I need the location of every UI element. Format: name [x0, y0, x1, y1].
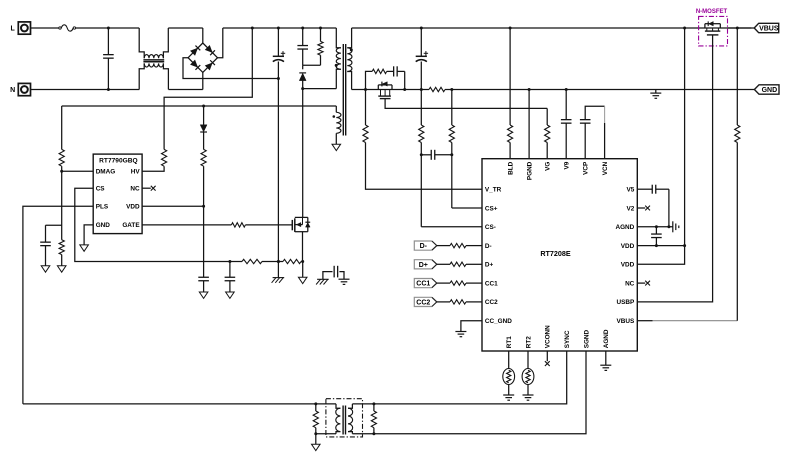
svg-text:N: N: [10, 87, 15, 94]
svg-text:GND: GND: [96, 222, 111, 229]
svg-text:USBP: USBP: [617, 299, 635, 306]
svg-text:D+: D+: [419, 262, 428, 269]
svg-text:CS+: CS+: [485, 205, 498, 212]
svg-text:VBUS: VBUS: [759, 26, 779, 33]
svg-text:V2: V2: [626, 205, 634, 212]
svg-text:NC: NC: [625, 280, 635, 287]
svg-text:VDD: VDD: [126, 204, 140, 211]
svg-text:N-MOSFET: N-MOSFET: [696, 9, 728, 15]
svg-text:DMAG: DMAG: [96, 169, 116, 176]
svg-text:CC_GND: CC_GND: [485, 318, 512, 325]
svg-text:CC1: CC1: [416, 281, 430, 288]
svg-text:PLS: PLS: [96, 204, 109, 211]
svg-text:AGND: AGND: [615, 224, 634, 231]
svg-text:CS-: CS-: [485, 224, 496, 231]
svg-text:CC2: CC2: [485, 299, 498, 306]
svg-text:D-: D-: [420, 243, 428, 250]
svg-text:D-: D-: [485, 243, 492, 250]
svg-text:VBUS: VBUS: [617, 318, 635, 325]
svg-text:VG: VG: [545, 162, 552, 171]
svg-text:AGND: AGND: [603, 329, 610, 348]
svg-text:CS: CS: [96, 186, 106, 193]
svg-text:VCP: VCP: [583, 161, 590, 175]
svg-text:NC: NC: [130, 186, 140, 193]
svg-text:VCONN: VCONN: [545, 325, 552, 348]
svg-text:GATE: GATE: [122, 222, 140, 229]
svg-text:SYNC: SYNC: [564, 330, 571, 348]
svg-text:HV: HV: [131, 169, 141, 176]
svg-text:V_TR: V_TR: [485, 187, 502, 194]
svg-text:VDD: VDD: [621, 243, 635, 250]
svg-text:RT7208E: RT7208E: [540, 249, 571, 258]
svg-text:VDD: VDD: [621, 262, 635, 269]
svg-text:PGND: PGND: [526, 161, 533, 180]
svg-text:V5: V5: [626, 187, 634, 194]
svg-text:BLD: BLD: [507, 161, 514, 175]
svg-text:V9: V9: [564, 161, 571, 169]
svg-text:GND: GND: [762, 87, 778, 94]
svg-text:RT1: RT1: [506, 336, 513, 349]
svg-text:CC2: CC2: [416, 299, 430, 306]
svg-text:SGND: SGND: [583, 329, 590, 348]
svg-text:RT7790GBQ: RT7790GBQ: [99, 157, 137, 164]
svg-text:L: L: [10, 26, 15, 33]
svg-text:D+: D+: [485, 262, 494, 269]
svg-text:RT2: RT2: [525, 336, 532, 349]
svg-text:VCN: VCN: [602, 161, 609, 175]
svg-text:CC1: CC1: [485, 280, 498, 287]
